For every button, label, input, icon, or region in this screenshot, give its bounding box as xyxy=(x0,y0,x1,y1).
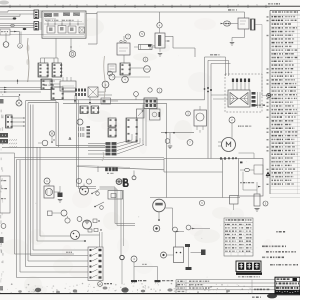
loop drop pair x115-117 xyxy=(114,187,116,224)
alternator node circle xyxy=(267,93,271,97)
circled big label xyxy=(102,81,109,88)
loop vertical pair xyxy=(76,95,78,187)
split bar to grounds xyxy=(133,262,135,267)
horn circle H1 xyxy=(144,66,151,73)
comp marks above box xyxy=(88,229,92,232)
U1 internal mesh xyxy=(44,23,84,25)
connection table (bottom centre-right) xyxy=(224,218,253,256)
connector K4 xyxy=(52,63,62,77)
wire y34.5 into unit xyxy=(10,34,44,36)
starter oval xyxy=(245,168,250,171)
wire tag oval dark 2 xyxy=(23,28,27,30)
link lumps xyxy=(220,157,222,159)
arrow right in enclosure xyxy=(258,186,261,188)
drawing office logo stamp xyxy=(236,261,261,272)
bundle corner rails with labels xyxy=(205,56,226,58)
hatch column 1 xyxy=(78,127,80,131)
connector J2 xyxy=(34,22,39,31)
junction connector strip 1 xyxy=(106,142,111,145)
wire tag oval dark 1 xyxy=(13,17,17,19)
wire starter to L7 xyxy=(242,172,244,190)
double drop x19.5-21 xyxy=(19,32,21,44)
comp with ground L7 xyxy=(254,194,260,206)
contact box with bowtie xyxy=(228,90,250,107)
circled label c3 xyxy=(157,88,162,93)
comp box below switch xyxy=(101,98,111,104)
wire U1 to corner rail xyxy=(86,13,97,15)
connector E1 xyxy=(6,115,13,128)
pin block on rail xyxy=(105,167,108,171)
circled label fuel xyxy=(44,178,50,184)
voltage regulator box xyxy=(238,18,249,29)
ignition coil T1 xyxy=(194,110,207,126)
wire sender right xyxy=(54,191,60,193)
circled label on rail xyxy=(199,200,204,205)
staircase wire x20 xyxy=(19,160,21,272)
circled label near B xyxy=(132,176,136,180)
double rail verticals down xyxy=(55,101,57,146)
small box I2 xyxy=(48,211,53,216)
relay K2 box xyxy=(108,64,116,72)
wire under connectors xyxy=(40,79,61,81)
comp marks above cap xyxy=(93,219,97,223)
parts list table (right margin legend) xyxy=(269,10,271,194)
junction row y133 xyxy=(161,132,194,134)
bulkhead connector D1a xyxy=(41,79,52,90)
U1 internal hatched comp row xyxy=(44,13,52,17)
coil resistor box xyxy=(174,247,184,263)
ground drop right xyxy=(157,267,159,281)
unit label text below xyxy=(238,126,239,127)
parts list row text xyxy=(272,16,273,18)
wires from left edge into connector J1 xyxy=(0,11,8,13)
circled label coil xyxy=(186,111,191,116)
light wire to flasher area xyxy=(112,76,150,78)
staircase wire x37 xyxy=(36,147,38,241)
title block bottom right xyxy=(275,277,300,295)
crease pencil line left xyxy=(27,38,28,82)
small box left with label xyxy=(0,29,10,35)
wires into unit from bundle xyxy=(211,94,228,96)
corner rail x97 xyxy=(96,12,98,44)
rail y197 xyxy=(150,197,240,199)
dark mark left edge y99 xyxy=(0,99,4,104)
top border grid ticks xyxy=(9,5,11,8)
fuel sender unit xyxy=(44,186,54,198)
stubs J1 to unit xyxy=(39,10,43,12)
staircase wire x30.5 xyxy=(30,105,32,256)
drop arrow below switch xyxy=(89,97,91,102)
drop from U1 bottom xyxy=(55,38,57,58)
crease small marks xyxy=(102,152,104,161)
circled label r188 xyxy=(186,225,191,230)
connector K3 xyxy=(38,63,48,77)
staircase wire x40 xyxy=(39,147,41,236)
circled label x125 xyxy=(122,76,129,83)
wire switch to right xyxy=(98,91,105,93)
drop arrow x75 xyxy=(74,95,76,100)
circled label r175 xyxy=(173,227,178,232)
strip1 fanout right xyxy=(117,140,132,144)
drop to coil box xyxy=(175,232,177,247)
bundle vertical 1 xyxy=(204,57,206,100)
sheet top border xyxy=(0,5,300,7)
revision table bottom xyxy=(176,279,275,281)
circled 4 mid xyxy=(131,256,137,262)
circled label G5 xyxy=(187,140,193,146)
ignition distributor circle xyxy=(71,231,80,240)
flasher wire staircase to bundle xyxy=(165,35,173,37)
switch arm right of cluster xyxy=(92,190,99,194)
circled label 3 xyxy=(143,57,148,62)
connector J5 xyxy=(120,63,130,75)
dark fuse comp rows xyxy=(0,133,8,138)
condenser drop with ground xyxy=(169,133,171,139)
bundle lumps xyxy=(207,87,209,89)
circled label 2 xyxy=(18,44,23,49)
arrow marks bottom elbow xyxy=(176,231,179,233)
lamp right elbow xyxy=(165,207,172,209)
circled label 5 xyxy=(139,31,144,36)
ground below resistor xyxy=(58,199,63,201)
staircase wire x33 xyxy=(32,105,34,251)
small circle left of cap xyxy=(77,217,82,222)
label under connectors xyxy=(44,85,47,86)
resistor R1 xyxy=(139,45,153,50)
wires from left edge into connector J2 xyxy=(0,23,34,25)
wire box right to comp xyxy=(191,252,202,254)
ground terminal left xyxy=(131,280,137,282)
distributor label text xyxy=(252,105,254,106)
box right side comp xyxy=(185,244,190,247)
staircase wire x28 xyxy=(27,103,29,261)
bulkhead connector D1b xyxy=(51,87,63,100)
starter label xyxy=(240,182,242,183)
regulator box xyxy=(117,43,130,55)
wire regulator down xyxy=(123,55,125,63)
long vertical x166.5 xyxy=(166,103,168,197)
stamp blob below title block xyxy=(267,294,277,299)
staircase wire x25.5 xyxy=(25,101,27,267)
instrument circle x80 xyxy=(77,119,83,125)
wire quad from left edge xyxy=(0,80,55,82)
narrow resistor block xyxy=(251,19,256,30)
long link y158 xyxy=(15,157,165,159)
comp box below B xyxy=(108,191,123,200)
lamp bottom drop xyxy=(158,212,160,219)
rail y169 xyxy=(77,167,164,170)
circled label below lamp xyxy=(153,225,160,232)
circled label c1 xyxy=(134,92,139,97)
warning triangle marker near table xyxy=(266,171,271,176)
circled label 7 xyxy=(126,34,131,39)
circled label x110 xyxy=(108,71,113,76)
staircase wire x16.5 xyxy=(16,160,18,278)
corner drops into unit xyxy=(225,57,227,76)
circled label left of box xyxy=(161,252,167,258)
tiny note above top border right xyxy=(268,3,270,4)
loop continues right pair xyxy=(100,186,116,188)
long top rail y12 xyxy=(97,11,245,13)
circled label c2 xyxy=(148,88,152,92)
starter bump box xyxy=(254,165,263,174)
connector block on rails xyxy=(144,98,157,109)
link to starter box xyxy=(164,158,239,160)
drop from rail x134 xyxy=(133,171,135,178)
earth circle x19 xyxy=(16,100,22,106)
label on top rail xyxy=(228,9,231,10)
right drop to terminal xyxy=(188,247,190,267)
wire cap to box top xyxy=(80,234,100,236)
relay box R3 with top pins xyxy=(60,81,76,91)
oval component with arrow xyxy=(224,21,231,26)
ground drop left xyxy=(133,267,135,281)
wires D1 to centre xyxy=(63,87,76,89)
staircase wire x14.5 xyxy=(14,158,16,255)
tick mark in enclosure xyxy=(240,162,243,164)
dark mark left edge xyxy=(0,237,4,243)
wire bar above connectors K3 K4 xyxy=(41,57,59,59)
circled label 6 (double circle) xyxy=(69,51,75,57)
tall connector x126 xyxy=(126,118,137,142)
stubs J2 to unit xyxy=(39,22,43,24)
circled 4 bottom with text xyxy=(98,282,103,287)
corner into y172 rail xyxy=(163,159,165,173)
earth circle x52 xyxy=(49,131,54,136)
vertical to starter enclosure xyxy=(222,159,224,198)
distributor cap circle xyxy=(83,220,92,229)
wiper motor M1 xyxy=(222,138,236,152)
switch lever mid xyxy=(95,202,104,207)
warning triangle small xyxy=(69,137,71,139)
wire from left edge y153 xyxy=(0,152,15,154)
switch box with X xyxy=(88,87,98,97)
circled label above motor xyxy=(229,117,235,123)
circled label L8 xyxy=(263,201,268,206)
hatch marks rows xyxy=(9,139,10,140)
flower symbol xyxy=(116,179,122,185)
drop to flasher xyxy=(159,12,161,23)
centre rail pair xyxy=(63,99,205,101)
dark resistor block xyxy=(58,193,63,198)
lamp circle with element xyxy=(153,199,166,212)
verticals from centre down xyxy=(142,105,144,145)
stacked connector x108 xyxy=(108,118,116,127)
double rail top corners xyxy=(26,100,57,102)
handwritten notes bottom right xyxy=(276,231,278,233)
verticals above fanout xyxy=(131,134,133,140)
double rail bottom run xyxy=(56,145,105,147)
meter circle A1 xyxy=(3,42,9,48)
crease centre vertical xyxy=(104,56,105,100)
comp box L6 xyxy=(230,196,239,205)
label box left lower xyxy=(0,176,10,213)
distributor unit dashed enclosure xyxy=(225,74,262,112)
conn pair row y106 xyxy=(80,106,88,114)
B stamp letter (drawn) xyxy=(123,178,125,186)
control unit U1 outer box xyxy=(42,11,86,38)
sender branch circle xyxy=(61,210,67,216)
sheet bottom border xyxy=(0,293,300,295)
flasher relay K5 xyxy=(155,33,165,48)
comp circle x45 xyxy=(42,140,48,146)
circled label 4 xyxy=(157,23,162,28)
box with arrow xyxy=(137,109,145,118)
loop bottom corners xyxy=(77,186,97,188)
small circle I3 xyxy=(65,218,70,223)
box with circle xyxy=(150,109,161,120)
drop into regulator box xyxy=(244,12,246,18)
dark dash column xyxy=(87,126,91,128)
ground terminal right xyxy=(155,280,161,282)
arrow wire y31 xyxy=(10,31,20,33)
ground below flasher xyxy=(159,48,161,52)
switch cluster dark marks xyxy=(75,89,77,92)
wire tag oval outline xyxy=(11,24,15,26)
loop bottom right pair xyxy=(115,223,135,225)
second drop pair x121-123 xyxy=(120,190,122,255)
bundle vertical 2 xyxy=(207,60,209,158)
stub wires E1 right xyxy=(12,117,24,119)
gauge circle cluster xyxy=(80,186,89,195)
right pin strip xyxy=(252,92,256,95)
grommet dark ring xyxy=(120,255,124,259)
small circles above cluster xyxy=(76,178,81,183)
pin leads on top xyxy=(232,82,234,90)
motor wires left xyxy=(218,141,222,143)
circled label left edge xyxy=(1,224,6,229)
connector J1 xyxy=(34,10,39,19)
switch bank box xyxy=(88,247,103,281)
regulator ground drop xyxy=(244,29,246,38)
wire to alternator line xyxy=(255,24,262,26)
bundle vertical 3 xyxy=(210,64,212,159)
starter enclosure box xyxy=(239,159,264,197)
